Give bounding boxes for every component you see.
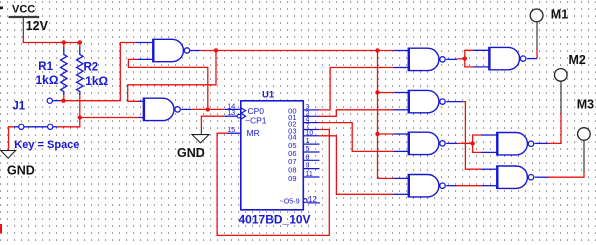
svg-text:1kΩ: 1kΩ <box>85 74 108 88</box>
svg-text:VCC: VCC <box>12 4 35 16</box>
svg-text:~O5-9: ~O5-9 <box>280 196 300 205</box>
svg-text:J1: J1 <box>12 101 25 113</box>
svg-text:12V: 12V <box>26 19 49 33</box>
svg-text:5: 5 <box>306 146 310 153</box>
svg-text:GND: GND <box>177 146 205 160</box>
svg-text:U1: U1 <box>262 90 275 101</box>
svg-text:6: 6 <box>306 154 310 161</box>
svg-text:~CP1: ~CP1 <box>245 115 267 125</box>
svg-text:MR: MR <box>247 128 260 138</box>
svg-text:M2: M2 <box>569 53 586 67</box>
svg-text:09: 09 <box>288 174 296 183</box>
svg-text:4017BD_10V: 4017BD_10V <box>239 213 311 227</box>
svg-text:GND: GND <box>7 164 35 178</box>
svg-text:R1: R1 <box>38 61 53 73</box>
svg-text:10: 10 <box>306 130 314 137</box>
svg-text:M3: M3 <box>577 98 594 112</box>
svg-text:12: 12 <box>308 195 317 204</box>
svg-text:1: 1 <box>306 138 310 145</box>
svg-text:1kΩ: 1kΩ <box>36 73 59 87</box>
svg-text:15: 15 <box>228 127 236 134</box>
svg-text:R2: R2 <box>84 61 99 73</box>
svg-text:Key = Space: Key = Space <box>14 139 79 151</box>
svg-text:M1: M1 <box>551 8 568 22</box>
svg-text:13: 13 <box>228 110 236 117</box>
svg-text:11: 11 <box>306 171 313 178</box>
svg-text:9: 9 <box>306 163 310 170</box>
